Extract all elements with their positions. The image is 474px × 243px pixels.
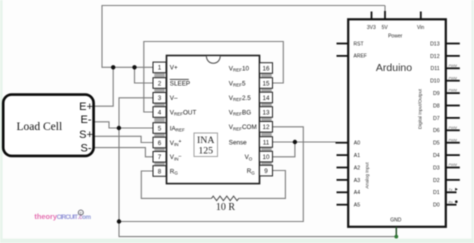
svg-text:Power: Power: [388, 34, 403, 40]
svg-text:A2: A2: [354, 165, 360, 171]
svg-text:SLEEP: SLEEP: [170, 80, 190, 87]
svg-text:D7: D7: [433, 116, 440, 122]
svg-text:PWM: PWM: [449, 163, 457, 167]
svg-text:D0: D0: [433, 203, 440, 209]
svg-text:12: 12: [262, 124, 270, 131]
svg-text:3V3: 3V3: [367, 25, 376, 31]
svg-text:Sense: Sense: [229, 139, 247, 146]
svg-text:5: 5: [158, 125, 162, 132]
svg-text:Analog Input: Analog Input: [364, 162, 369, 189]
svg-text:125: 125: [198, 145, 213, 156]
svg-text:11: 11: [263, 139, 270, 146]
svg-text:8: 8: [158, 168, 162, 175]
svg-text:Arduino: Arduino: [376, 62, 412, 74]
svg-text:5V: 5V: [382, 25, 389, 31]
svg-text:2: 2: [158, 80, 162, 87]
svg-text:E-: E-: [81, 114, 92, 126]
svg-text:4: 4: [158, 109, 162, 116]
svg-text:13: 13: [262, 109, 270, 116]
svg-text:D8: D8: [433, 103, 440, 109]
svg-text:VREFCOM: VREFCOM: [229, 124, 257, 131]
svg-text:D6: D6: [433, 128, 440, 134]
svg-text:E+: E+: [79, 101, 93, 113]
svg-text:GND: GND: [390, 218, 402, 224]
svg-text:PWM: PWM: [449, 126, 457, 130]
svg-text:PWM: PWM: [449, 138, 457, 142]
svg-text:INA: INA: [197, 135, 214, 146]
svg-text:PWM: PWM: [449, 64, 457, 68]
svg-text:3: 3: [158, 95, 162, 102]
svg-text:D3: D3: [433, 165, 440, 171]
svg-text:V–: V–: [170, 95, 178, 102]
svg-text:S-: S-: [81, 143, 92, 155]
svg-text:D13: D13: [430, 41, 440, 47]
svg-text:D12: D12: [430, 54, 440, 60]
svg-text:15: 15: [262, 80, 270, 87]
svg-text:RST: RST: [354, 41, 364, 47]
svg-text:V+: V+: [170, 65, 178, 72]
svg-text:D1: D1: [433, 190, 440, 196]
svg-text:6: 6: [158, 140, 162, 147]
svg-text:A1: A1: [354, 153, 360, 159]
svg-text:D2: D2: [433, 178, 440, 184]
svg-text:14: 14: [262, 95, 270, 102]
svg-text:Tx: Tx: [449, 188, 453, 192]
svg-text:PWM: PWM: [449, 89, 457, 93]
svg-text:D10: D10: [430, 79, 440, 85]
svg-text:A3: A3: [354, 178, 360, 184]
svg-text:7: 7: [158, 154, 162, 161]
svg-text:A0: A0: [354, 141, 360, 147]
svg-text:A4: A4: [354, 190, 360, 196]
svg-text:Rx: Rx: [449, 200, 453, 204]
svg-text:D5: D5: [433, 141, 440, 147]
svg-text:10 R: 10 R: [216, 202, 236, 213]
svg-text:Digital Input/Output: Digital Input/Output: [417, 88, 422, 129]
svg-text:PWM: PWM: [449, 76, 457, 80]
svg-text:1: 1: [158, 65, 162, 72]
svg-text:9: 9: [264, 168, 268, 175]
svg-text:D9: D9: [433, 91, 440, 97]
svg-text:S+: S+: [79, 129, 93, 141]
svg-text:16: 16: [262, 65, 270, 72]
svg-text:D11: D11: [430, 66, 439, 72]
svg-text:A5: A5: [354, 203, 360, 209]
svg-text:D4: D4: [433, 153, 440, 159]
svg-text:VREFOUT: VREFOUT: [170, 109, 197, 116]
svg-text:10: 10: [262, 154, 270, 161]
svg-text:theory: theory: [34, 212, 57, 221]
svg-text:AREF: AREF: [354, 54, 367, 60]
svg-text:Load Cell: Load Cell: [17, 121, 63, 133]
svg-text:CIRCUIT: CIRCUIT: [57, 214, 79, 221]
svg-text:Vin: Vin: [417, 25, 424, 31]
